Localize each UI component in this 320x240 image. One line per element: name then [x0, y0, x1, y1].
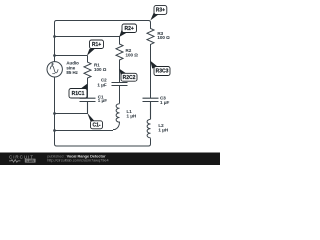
- svg-text:C1-: C1-: [92, 123, 100, 129]
- svg-text:100 Ω: 100 Ω: [157, 35, 170, 40]
- flag box R3+: [154, 6, 167, 15]
- footer bar: [0, 153, 220, 166]
- node dot rail/R2: [53, 35, 56, 38]
- flag box R2C2: [121, 73, 137, 81]
- flag box labels: [72, 8, 169, 129]
- inductor L2: [147, 119, 150, 137]
- flag pointers: [80, 13, 158, 122]
- svg-text:1 μF: 1 μF: [160, 100, 170, 105]
- pointer R2+: [119, 29, 127, 37]
- svg-text:C2: C2: [101, 77, 107, 82]
- source minus: [52, 73, 55, 75]
- pointer R2C2: [119, 69, 126, 76]
- wire: bottom rail to L2 bottom: [57, 138, 151, 146]
- capacitor C2: [112, 83, 128, 104]
- pointer R3C3: [150, 61, 158, 69]
- logo zigzag: [9, 160, 20, 163]
- svg-text:R1+: R1+: [92, 42, 101, 48]
- logo LAB box: [25, 159, 36, 163]
- resistor R3: [147, 23, 154, 99]
- pointer R1+: [87, 49, 95, 56]
- svg-text:R1C1: R1C1: [72, 91, 85, 97]
- svg-text:1 μF: 1 μF: [98, 98, 108, 103]
- svg-text:1 μH: 1 μH: [127, 114, 137, 119]
- svg-text:R3+: R3+: [156, 8, 165, 14]
- svg-text:LAB: LAB: [27, 159, 35, 163]
- wire: rail to R1 top: [55, 55, 88, 57]
- svg-text:R2+: R2+: [125, 26, 134, 32]
- pointer C1-: [87, 113, 94, 122]
- pointer R3+: [150, 13, 158, 21]
- source V1 circle: [47, 62, 62, 77]
- svg-text:R2C2: R2C2: [123, 75, 136, 81]
- flag box C1-: [91, 121, 103, 129]
- svg-text:1 μF: 1 μF: [97, 83, 107, 88]
- svg-text:100 Ω: 100 Ω: [94, 67, 107, 72]
- node dot rail/L1: [53, 129, 56, 132]
- node flag boxes: [69, 6, 170, 129]
- flag box R1+: [90, 40, 104, 49]
- wire: rail to C1 bottom: [55, 113, 88, 115]
- flag box R2+: [122, 24, 137, 33]
- capacitor C3: [143, 98, 159, 119]
- flag box R3C3: [154, 67, 170, 76]
- node dot rail/C1: [53, 112, 56, 115]
- svg-text:100 Ω: 100 Ω: [126, 52, 139, 57]
- wire: top rail to branch 3: [57, 21, 151, 23]
- inductor L1: [113, 104, 120, 130]
- wire: rail to L1 bottom: [55, 130, 114, 132]
- junction dots: [53, 35, 56, 132]
- source plus: [51, 63, 54, 66]
- source sine: [50, 66, 58, 73]
- wire: rail to R2 top: [55, 36, 120, 38]
- component labels: [66, 31, 170, 133]
- wire: left rail upper (top-left corner down to source top): [55, 21, 57, 63]
- svg-text:R3C3: R3C3: [156, 69, 169, 75]
- svg-text:85 Hz: 85 Hz: [66, 70, 78, 75]
- svg-text:http://circuitlab.com/c/usm7aw: http://circuitlab.com/c/usm7awq79e4: [47, 159, 108, 163]
- resistor R1: [84, 56, 91, 99]
- wire: left rail lower (source bottom to bottom-left corner): [55, 76, 57, 146]
- node dot rail/R1: [53, 54, 56, 57]
- pointer R1C1: [80, 84, 87, 90]
- flag box R1C1: [69, 89, 87, 99]
- capacitor C1: [80, 98, 96, 113]
- resistor R2: [116, 37, 123, 83]
- svg-text:1 μH: 1 μH: [158, 128, 168, 133]
